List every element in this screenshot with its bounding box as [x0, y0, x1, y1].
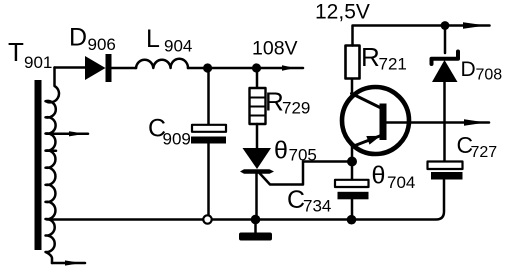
- svg-text:708: 708: [476, 67, 503, 84]
- svg-text:734: 734: [303, 197, 331, 216]
- transformer T901 winding: [46, 68, 59, 264]
- svg-text:904: 904: [164, 37, 192, 56]
- inductor L904: [136, 59, 188, 68]
- wire: R729 branch from top rail: [256, 68, 259, 88]
- wire: thyristor gate to emitter node: [259, 162, 353, 185]
- node: junction dot 12.5V rail / D708: [441, 21, 450, 30]
- node: junction dot at R729 / top rail: [252, 63, 261, 72]
- svg-text:901: 901: [24, 53, 52, 72]
- wire: diode to inductor: [112, 67, 137, 70]
- wire: 12.5V rail arrow to right: [445, 24, 490, 27]
- resistor R721: [346, 46, 360, 79]
- wire: node down to C734: [351, 162, 354, 180]
- label C727: [457, 132, 498, 161]
- label L904: [146, 25, 192, 56]
- capacitor C909: [192, 125, 226, 132]
- wire: collector up to R721: [351, 79, 354, 95]
- wire: R721 up to 12.5V rail: [353, 26, 446, 46]
- svg-text:729: 729: [282, 99, 310, 118]
- svg-text:R: R: [265, 87, 284, 117]
- wire: transformer small tick: [47, 150, 56, 153]
- wire: transformer tap (mid) with arrow stub: [47, 133, 88, 136]
- svg-text:721: 721: [379, 55, 407, 74]
- ground: [254, 221, 257, 233]
- svg-text:T: T: [8, 37, 24, 67]
- transistor θ704: [342, 87, 409, 154]
- node: junction dot ground / bottom rail: [251, 215, 261, 225]
- capacitor C734: [335, 180, 369, 187]
- wire: top rail, transformer to diode: [55, 66, 86, 69]
- wire: R729 to thyristor anode: [256, 124, 259, 148]
- wire: transformer bottom stub with arrow: [52, 262, 85, 265]
- svg-text:727: 727: [471, 144, 498, 161]
- svg-text:D: D: [461, 58, 476, 81]
- resistor R729: [250, 88, 266, 124]
- wire: bottom rail: [47, 180, 444, 220]
- zener diode D708: [432, 52, 459, 65]
- svg-text:θ: θ: [274, 137, 288, 165]
- svg-text:909: 909: [163, 130, 191, 149]
- svg-text:L: L: [146, 25, 160, 53]
- label R721: [361, 42, 407, 74]
- node: junction dot at L904 / C909: [203, 63, 212, 72]
- label θ704: [372, 162, 416, 193]
- wire: thyristor cathode down to bottom rail: [255, 174, 258, 220]
- wire: C909 down to bottom rail: [207, 144, 210, 216]
- svg-text:D: D: [69, 24, 87, 52]
- arrow 108V output: [282, 65, 295, 71]
- transformer T901 core: [35, 80, 42, 250]
- capacitor C727: [428, 162, 463, 170]
- wire: C734 down to bottom rail: [351, 199, 354, 219]
- svg-text:906: 906: [88, 35, 116, 54]
- label C734: [287, 186, 331, 216]
- label R729: [265, 87, 310, 118]
- node: junction dot C734 / bottom rail: [347, 215, 357, 225]
- label θ705: [274, 137, 317, 165]
- label D906: [69, 24, 116, 55]
- wire: top rail, inductor to 108V arrow: [188, 67, 303, 70]
- svg-text:704: 704: [387, 173, 415, 192]
- label T901: [8, 37, 52, 72]
- wire: junction down to zener: [444, 26, 447, 54]
- wire: zener down across base wire to C727: [443, 82, 446, 162]
- svg-text:θ: θ: [372, 162, 386, 190]
- node: junction dot emitter / gate / C734: [347, 157, 357, 167]
- wire: emitter down to gate/C734 node: [351, 146, 354, 162]
- label D708: [461, 58, 503, 84]
- thyristor θ705: [243, 148, 272, 169]
- wire: transistor base lead to right with arrow: [387, 121, 490, 124]
- svg-text:108V: 108V: [252, 38, 298, 60]
- wire: junction down to C909: [207, 68, 210, 125]
- diode D906: [85, 56, 106, 80]
- svg-text:705: 705: [289, 146, 317, 165]
- svg-text:12,5V: 12,5V: [315, 1, 370, 24]
- label C909: [148, 115, 191, 149]
- node: open junction circle C909 / bottom rail: [203, 215, 211, 223]
- svg-text:R: R: [361, 42, 380, 72]
